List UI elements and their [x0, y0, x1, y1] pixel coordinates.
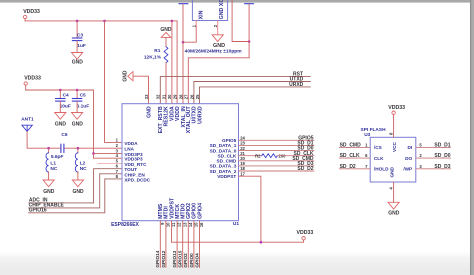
svg-text:10uF: 10uF	[60, 103, 71, 109]
wire CHIP_ENABLE to pin 7 CHIP_EN	[29, 174, 122, 208]
ground below L2	[72, 180, 84, 195]
svg-text:GND: GND	[73, 189, 85, 195]
svg-text:C5: C5	[80, 92, 86, 98]
svg-text:R1: R1	[154, 48, 160, 54]
ground below crystal pin 2	[212, 35, 225, 49]
svg-text:VCC: VCC	[392, 141, 397, 152]
wire flash /CS	[339, 146, 370, 148]
svg-text:GPIO4: GPIO4	[197, 203, 203, 219]
capacitor C2 (load cap, cut at top)	[245, 3, 254, 5]
wire pin 20 SD_CMD	[239, 160, 314, 162]
svg-text:GND: GND	[72, 59, 84, 65]
wire ADC_IN to pin 6 TOUT	[29, 169, 122, 203]
svg-text:GND: GND	[146, 106, 152, 118]
wire pin 26 U0TXD to UTXD	[194, 82, 310, 104]
wire pin 21 SD_CLK left	[239, 155, 262, 157]
svg-text:DI: DI	[408, 145, 413, 150]
U1 bottom pin labels (rotated)	[158, 197, 203, 219]
wire flash DO	[416, 157, 451, 159]
svg-text:XPD_DCDC: XPD_DCDC	[124, 177, 150, 182]
svg-text:31: 31	[161, 94, 166, 99]
node junction L2 tap	[77, 147, 80, 150]
node junction VDDPST	[260, 241, 263, 244]
svg-text:GND: GND	[213, 43, 225, 49]
svg-text:ESP8266EX: ESP8266EX	[111, 222, 139, 228]
svg-text:GPIO14: GPIO14	[155, 250, 160, 267]
svg-text:32: 32	[156, 94, 161, 99]
wire C2 down to XTAL_OUT	[188, 4, 249, 104]
wire flash /WP	[416, 168, 451, 170]
svg-text:SD_D1: SD_D1	[434, 143, 450, 149]
U1 bottom pin numbers (rotated)	[160, 222, 204, 227]
power flag VDD33 (flash)	[388, 105, 405, 115]
wire VDD33 rail top	[25, 21, 177, 104]
power flag VDD33 (bottom)	[297, 230, 314, 240]
node junction C4 tap	[59, 89, 62, 92]
svg-text:GND: GND	[123, 70, 129, 82]
wire VDD33 to flash VCC pin 8	[393, 114, 395, 137]
U1 left pin numbers 1-8	[116, 137, 119, 179]
svg-text:C6: C6	[61, 132, 67, 138]
wire pin30 VDDA vertical	[171, 21, 173, 104]
svg-text:U3: U3	[364, 132, 370, 138]
svg-text:SD_D3: SD_D3	[434, 164, 450, 170]
svg-text:12K,1%: 12K,1%	[144, 54, 162, 60]
svg-text:29: 29	[173, 94, 178, 99]
svg-text:XIN: XIN	[198, 10, 204, 19]
wire flash DI	[416, 146, 451, 148]
svg-text:VDD33: VDD33	[388, 105, 405, 111]
wire R2 to SD_CLK label	[277, 155, 314, 157]
node junction VDDA branch	[103, 20, 106, 23]
wire GPIO16 to pin 8 XPD_DCDC	[29, 179, 122, 213]
node junction XTAL_IN	[182, 41, 185, 44]
wire pin 19 SD_DATA_3	[239, 165, 314, 167]
U1 top pin labels (rotated)	[146, 105, 203, 133]
svg-text:0.1uF: 0.1uF	[77, 103, 90, 109]
wire pin 14 GPIO2 down	[187, 221, 189, 268]
svg-text:GPIO4: GPIO4	[194, 253, 199, 268]
power flag VDD33 (left, C4/C5)	[24, 75, 41, 90]
node junction C5 tap	[76, 89, 79, 92]
ground below C5	[72, 113, 84, 128]
wire pin 17 VDDPST to VDD route	[239, 176, 261, 242]
svg-text:GND: GND	[388, 210, 400, 216]
svg-text:GND: GND	[390, 166, 395, 177]
bottom grey band	[0, 253, 474, 268]
wire pin 5 VDD_RTC stub (faded)	[98, 162, 122, 164]
U1 left pin labels	[124, 141, 150, 183]
node junction XOUT cap	[248, 40, 251, 43]
power flag VDD33 (top-left)	[23, 9, 40, 21]
wire C6 to chip pin 2 LNA	[64, 147, 122, 149]
pin 1 XIN stub	[195, 21, 197, 28]
wire pin 9 MTMS down	[159, 221, 161, 268]
svg-text:25: 25	[195, 94, 200, 99]
svg-text:L1: L1	[50, 160, 56, 166]
svg-text:28: 28	[178, 94, 183, 99]
svg-text:SD_CMD: SD_CMD	[340, 143, 362, 149]
wire flash CLK	[339, 157, 370, 159]
svg-text:GND: GND	[72, 121, 84, 127]
wire GND flag to pin 33	[133, 76, 149, 104]
svg-text:U0RXD: U0RXD	[197, 106, 203, 124]
svg-text:26: 26	[189, 94, 194, 99]
wire pin 25 U0RXD to URXD	[200, 87, 311, 104]
node junction pin3 tap	[92, 152, 95, 155]
node junction pin30 branch	[171, 20, 174, 23]
IC U1 ESP8266EX body	[111, 104, 239, 229]
svg-text:33: 33	[144, 94, 149, 99]
svg-text:GND: GND	[43, 189, 55, 195]
wire pin 16 GPIO4 down	[199, 221, 201, 268]
IC U3 SPI FLASH body	[361, 127, 416, 182]
U1 top pin numbers (rotated)	[144, 94, 200, 99]
U1 right pin labels	[210, 138, 237, 179]
pin 2 GND stub	[217, 21, 219, 35]
wire pin 24 GPIO5	[239, 139, 314, 141]
wire pin 23 SD_DATA_1	[239, 144, 314, 146]
svg-text:VDD33: VDD33	[24, 75, 41, 81]
svg-text:U1: U1	[233, 221, 239, 227]
svg-text:SD_D2: SD_D2	[340, 164, 356, 170]
ground below flash	[388, 202, 400, 216]
wire pin 13 MTDO down	[182, 221, 184, 268]
svg-text:CLK: CLK	[374, 156, 384, 161]
wire pin 3 VDD3P3	[94, 152, 123, 154]
wire pin 32 EXT_RSTB to RST	[160, 76, 310, 103]
wire bottom VDD33 run	[172, 240, 304, 242]
svg-text:27: 27	[184, 94, 189, 99]
top grey band	[0, 0, 474, 3]
resistor R1 12K pullup to GND flag	[144, 27, 172, 104]
capacitor C3	[72, 21, 85, 53]
node junction L1 tap	[47, 147, 50, 150]
capacitor C6 5.6pF (series)	[51, 132, 68, 160]
resistor R2 200 (series)	[255, 153, 286, 158]
svg-text:C4: C4	[63, 92, 69, 98]
svg-text:VDD33: VDD33	[23, 9, 40, 15]
node junction C3 tap	[76, 20, 79, 23]
wire VDDA feed to pin 1	[105, 21, 123, 142]
wire XTAL_IN vertical to chip pin 28	[182, 4, 184, 104]
svg-text:SD_CLK: SD_CLK	[340, 153, 360, 159]
right grey band	[470, 0, 474, 275]
wire crystal XOUT branch	[232, 0, 249, 42]
wire crystal pin1 to XTAL_IN vertical	[183, 27, 196, 42]
svg-text:1uF: 1uF	[77, 43, 86, 49]
svg-text:GND: GND	[55, 121, 67, 127]
capacitor C1 (load cap, cut at top)	[179, 3, 188, 5]
svg-text:R2: R2	[255, 153, 261, 158]
svg-text:ANT1: ANT1	[21, 116, 34, 122]
wire pin 11 VDDPST down	[171, 221, 173, 243]
svg-text:/WP: /WP	[403, 167, 412, 172]
ground flag (left of chip, pin 33)	[123, 70, 133, 82]
crystal Y1 box	[185, 0, 243, 55]
svg-text:SD_D0: SD_D0	[434, 153, 450, 159]
svg-text:GPIO13: GPIO13	[172, 250, 177, 267]
wire pin 22 SD_DATA_0	[239, 150, 314, 152]
U1 right pin numbers 24-17	[240, 136, 245, 177]
svg-text:VDD33: VDD33	[297, 230, 314, 236]
svg-text:GND XO: GND XO	[219, 0, 225, 19]
wire flash GND pin 4 down	[393, 182, 395, 202]
capacitor C4	[56, 90, 71, 113]
antenna ANT1	[21, 116, 34, 131]
inductor L1 (NC)	[46, 148, 58, 180]
svg-text:/CS: /CS	[374, 145, 382, 150]
wire pin 15 GPIO0 down	[193, 221, 195, 268]
svg-text:GPIO2: GPIO2	[183, 253, 188, 268]
inductor L2 (NC)	[75, 148, 87, 180]
capacitor C5	[72, 90, 89, 113]
svg-text:GPIO12: GPIO12	[161, 250, 166, 267]
svg-text:NC: NC	[80, 166, 87, 172]
svg-text:SD_D2: SD_D2	[297, 166, 313, 172]
wire pin 12 MTCK down	[176, 221, 178, 268]
svg-text:GPIO15: GPIO15	[178, 250, 183, 267]
wire VDD33 rail C4/C5 to pins 3/4	[26, 90, 122, 158]
wire pin 10 MTDI down	[165, 221, 167, 268]
svg-text:VDDPST: VDDPST	[217, 174, 236, 179]
ground below C4	[55, 113, 67, 128]
wire flash /HOLD	[339, 168, 370, 170]
svg-text:/HOLD: /HOLD	[374, 167, 389, 172]
svg-text:17: 17	[240, 171, 245, 176]
svg-text:GPIO0: GPIO0	[189, 253, 194, 268]
svg-text:SPI FLASH: SPI FLASH	[361, 127, 387, 133]
svg-text:VDDA: VDDA	[124, 141, 138, 146]
svg-text:URXD: URXD	[289, 82, 304, 88]
svg-text:L2: L2	[80, 160, 86, 166]
wire pin 18 SD_DATA_2	[239, 170, 314, 172]
svg-text:40M/26M/24MHz ±10ppm: 40M/26M/24MHz ±10ppm	[185, 49, 243, 55]
svg-text:30: 30	[167, 94, 172, 99]
wire antenna to LNA row	[27, 131, 61, 148]
ground below L1	[43, 180, 55, 195]
svg-text:GND: GND	[160, 27, 172, 33]
ground below C3	[72, 53, 84, 66]
svg-text:DO: DO	[405, 156, 412, 161]
svg-text:5.6pF: 5.6pF	[51, 154, 64, 160]
svg-text:VDD_RTC: VDD_RTC	[124, 162, 147, 167]
svg-text:NC: NC	[50, 166, 57, 172]
